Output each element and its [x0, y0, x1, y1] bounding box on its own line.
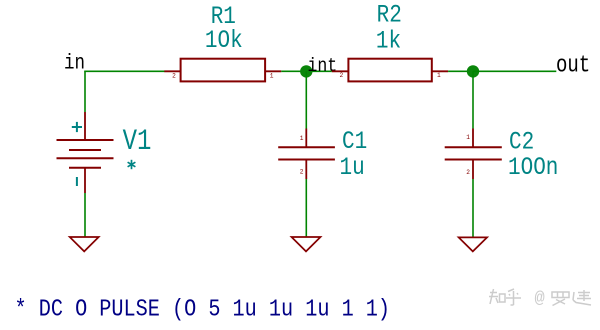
svg-text:2: 2 — [300, 169, 304, 176]
watermark char jian — [573, 290, 591, 305]
svg-text:1: 1 — [466, 134, 470, 141]
V1 plate 1 long — [57, 139, 114, 141]
svg-text:R2: R2 — [377, 1, 402, 29]
V1 plate 3 long — [57, 157, 114, 159]
resistor R2 body — [348, 59, 431, 82]
wire R2 to junction out — [448, 70, 473, 72]
wire in to R1 — [84, 70, 164, 72]
junction node int — [300, 65, 312, 77]
C1 value 1u — [340, 153, 365, 181]
ground symbol C2 — [459, 237, 488, 251]
R1 pin 2 — [164, 70, 180, 72]
svg-text:1Ok: 1Ok — [205, 27, 243, 55]
R2 pin 2 — [332, 70, 349, 72]
C2 pin 2 — [472, 160, 474, 180]
svg-text:1u: 1u — [340, 153, 365, 181]
ground symbol V1 — [70, 237, 99, 251]
V1 plus mark — [72, 122, 82, 132]
resistor R1 body — [181, 59, 266, 82]
wire C2 to ground — [472, 179, 474, 237]
svg-text:1k: 1k — [376, 27, 401, 55]
R2 reference label — [377, 1, 402, 29]
svg-text:2: 2 — [172, 73, 176, 80]
R2 pin 1 — [432, 70, 448, 72]
C2 value 100n — [508, 154, 558, 182]
wire in corner vertical — [84, 71, 86, 112]
V1 plate 4 short — [69, 167, 101, 169]
C1 pin 2 — [305, 160, 307, 180]
svg-text:2: 2 — [466, 169, 470, 176]
svg-text:1OOn: 1OOn — [508, 154, 558, 182]
wire C1 to ground — [305, 179, 307, 237]
svg-text:in: in — [64, 51, 85, 75]
svg-text:1: 1 — [300, 135, 304, 142]
ground symbol C1 — [292, 237, 321, 251]
junction node out — [467, 65, 479, 77]
spice directive text — [15, 296, 391, 323]
svg-text:@: @ — [535, 290, 545, 309]
svg-text:1: 1 — [437, 72, 441, 79]
svg-text:V1: V1 — [123, 125, 152, 159]
battery V1 pin - (bottom) — [84, 168, 86, 193]
capacitor C1 plate top — [278, 146, 335, 148]
svg-text:2: 2 — [339, 72, 343, 79]
svg-text:out: out — [556, 51, 590, 79]
wire V1 to ground — [84, 193, 86, 237]
svg-text:* DC O PULSE (O 5 1u 1u 1u 1 1: * DC O PULSE (O 5 1u 1u 1u 1 1) — [15, 296, 391, 323]
watermark char zhi — [489, 289, 505, 304]
capacitor C1 plate bottom — [278, 159, 335, 161]
V1 reference label — [123, 125, 152, 159]
net label int — [308, 56, 338, 78]
wire out to C2 — [472, 71, 474, 128]
C1 reference label — [342, 127, 367, 155]
R1 pin 1 — [265, 70, 281, 72]
svg-text:C1: C1 — [342, 127, 367, 155]
watermark char hu — [506, 289, 521, 305]
capacitor C2 plate top — [445, 146, 502, 148]
R1 value 10k — [205, 27, 243, 55]
watermark char luo — [552, 292, 569, 306]
C2 reference label — [509, 128, 534, 156]
C2 pin 1 — [472, 129, 474, 148]
watermark zhihu @luojian — [489, 289, 591, 309]
R1 reference label — [211, 2, 236, 30]
battery V1 pin + (top) — [84, 112, 86, 140]
wire junction to out — [473, 70, 556, 72]
svg-text:C2: C2 — [509, 128, 534, 156]
net label out — [556, 51, 590, 79]
V1 plate 2 short — [69, 149, 101, 151]
capacitor C2 plate bottom — [445, 159, 502, 161]
R2 value 1k — [376, 27, 401, 55]
wire int to C1 — [305, 71, 307, 128]
wire R1 to junction int — [281, 70, 332, 72]
net label in — [64, 51, 85, 75]
svg-text:int: int — [308, 56, 338, 78]
V1 minus mark — [76, 177, 78, 186]
V1 value * — [128, 160, 136, 169]
svg-text:1: 1 — [270, 73, 274, 80]
C1 pin 1 — [305, 129, 307, 148]
